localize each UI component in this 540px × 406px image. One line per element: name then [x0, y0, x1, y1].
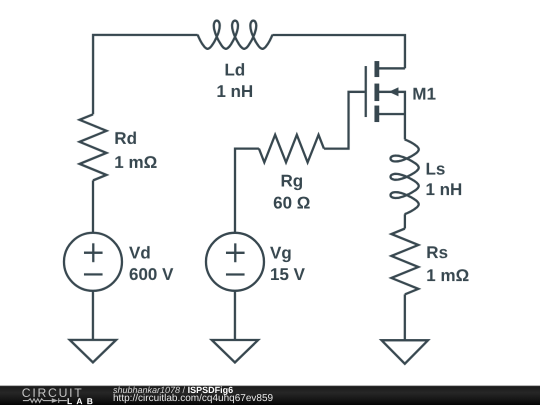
gate bar	[365, 66, 367, 117]
wire: Vg to ground	[234, 291, 236, 340]
svg-text:Vd: Vd	[129, 243, 151, 262]
channel segments	[374, 61, 379, 122]
svg-text:LAB: LAB	[67, 396, 97, 406]
wire: top rail right segment down to drain	[272, 35, 405, 68]
svg-text:Rd: Rd	[114, 129, 137, 148]
CircuitLab logo	[0, 383, 110, 405]
svg-text:60 Ω: 60 Ω	[273, 193, 310, 212]
svg-text:Ld: Ld	[224, 60, 245, 79]
voltage source Vg	[206, 233, 264, 291]
ground (left)	[70, 340, 116, 363]
footer bar	[0, 384, 540, 406]
ground (middle)	[212, 340, 258, 363]
wire: left rail and top rail left segment	[93, 35, 198, 114]
svg-text:1 mΩ: 1 mΩ	[114, 153, 157, 172]
drain lead	[377, 67, 405, 69]
wire: source of M1 to Ls	[404, 114, 406, 139]
wire: Rg to gate of M1	[324, 92, 365, 149]
label Rg	[273, 172, 310, 213]
wire: Rd to Vd	[92, 180, 94, 232]
svg-text:Ls: Ls	[426, 159, 446, 178]
label Ld	[216, 60, 253, 101]
svg-text:1 nH: 1 nH	[216, 82, 253, 101]
svg-text:Rg: Rg	[280, 172, 303, 191]
resistor Rd	[80, 114, 107, 180]
wire: Vg up to Rg left lead	[235, 149, 259, 233]
wire: Vd to ground	[92, 291, 94, 340]
wire: Rs to ground	[404, 294, 406, 340]
footer credit line	[113, 385, 233, 393]
logo resistor-diode glyph	[23, 398, 67, 403]
svg-text:Vg: Vg	[270, 243, 292, 262]
svg-text:M1: M1	[412, 84, 436, 103]
resistor Rs	[391, 229, 418, 295]
body arrow	[389, 87, 399, 96]
wire: Ls to Rs	[404, 214, 406, 228]
body lead	[377, 92, 405, 114]
inductor Ld	[198, 21, 273, 49]
resistor Rg	[259, 135, 324, 163]
inductor Ls	[390, 139, 418, 214]
svg-text:1 nH: 1 nH	[426, 180, 463, 199]
svg-text:1 mΩ: 1 mΩ	[426, 266, 469, 285]
footer url line	[113, 395, 273, 403]
svg-text:15 V: 15 V	[270, 265, 306, 284]
source lead	[377, 113, 405, 115]
svg-text:Rs: Rs	[426, 243, 448, 262]
svg-text:600 V: 600 V	[129, 265, 174, 284]
ground (right)	[382, 340, 429, 364]
transistor M1 (NMOS)	[366, 61, 405, 122]
voltage source Vd	[64, 233, 122, 291]
